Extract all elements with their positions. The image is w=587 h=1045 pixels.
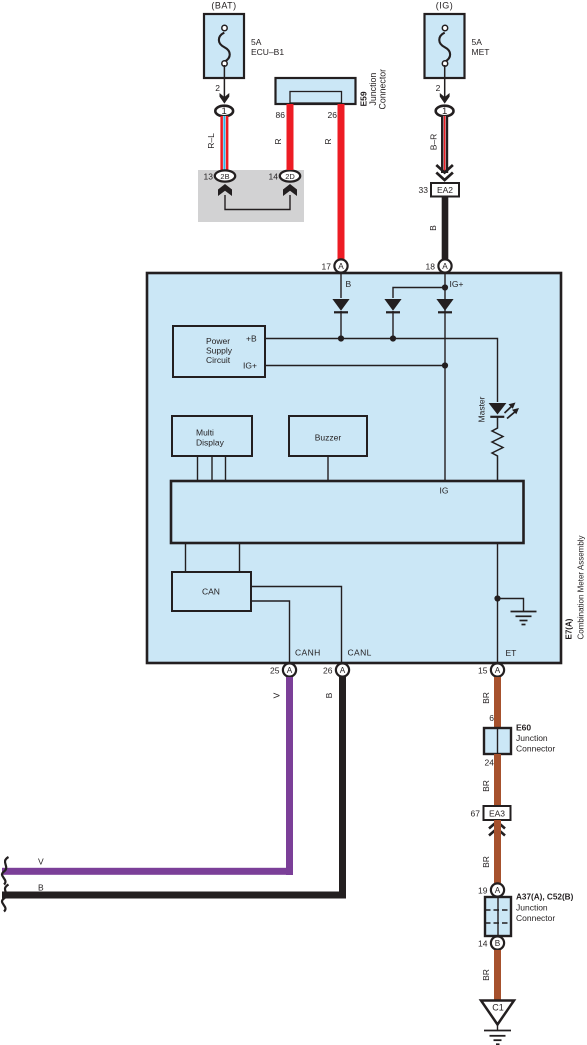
svg-text:6: 6 bbox=[489, 713, 494, 723]
svg-text:25: 25 bbox=[270, 666, 280, 676]
svg-text:Circuit: Circuit bbox=[206, 355, 231, 365]
svg-text:17: 17 bbox=[322, 262, 332, 272]
svg-text:EA3: EA3 bbox=[489, 809, 505, 819]
node dot ET/ground bbox=[494, 595, 500, 601]
wire B (CANL, black) bbox=[2, 677, 346, 899]
pin 25 connector A bbox=[283, 663, 296, 676]
svg-text:26: 26 bbox=[323, 666, 333, 676]
label Junction Connector (A37) bbox=[516, 903, 555, 924]
svg-text:A: A bbox=[340, 666, 346, 675]
svg-text:BR: BR bbox=[481, 780, 491, 792]
svg-text:B: B bbox=[324, 692, 334, 698]
break symbol (V wire) bbox=[2, 857, 8, 885]
wire bus to ET pin bbox=[497, 543, 499, 663]
svg-text:67: 67 bbox=[471, 809, 481, 819]
svg-text:5A: 5A bbox=[251, 37, 262, 47]
diode D3 bbox=[436, 299, 453, 312]
svg-text:ECU–B1: ECU–B1 bbox=[251, 47, 284, 57]
svg-text:Junction: Junction bbox=[516, 733, 548, 743]
node dot D2/+B bbox=[390, 335, 396, 341]
wire fuse (BAT) to connector 1 bbox=[223, 65, 225, 98]
svg-text:Multi: Multi bbox=[196, 428, 214, 438]
svg-text:2B: 2B bbox=[220, 172, 229, 181]
connector 2D bbox=[280, 170, 300, 181]
svg-text:B: B bbox=[428, 225, 438, 231]
svg-text:BR: BR bbox=[481, 856, 491, 868]
svg-text:86: 86 bbox=[276, 110, 286, 120]
svg-text:Display: Display bbox=[196, 438, 225, 448]
svg-text:1: 1 bbox=[442, 106, 447, 117]
svg-text:BR: BR bbox=[481, 692, 491, 704]
svg-text:14: 14 bbox=[478, 939, 488, 949]
svg-text:Master: Master bbox=[477, 396, 487, 422]
svg-text:(IG): (IG) bbox=[436, 1, 454, 11]
pin 17 connector A bbox=[334, 259, 347, 272]
wire diode2 top branch bbox=[393, 288, 445, 299]
ground point C1 bbox=[481, 1001, 514, 1025]
svg-text:CAN: CAN bbox=[202, 587, 220, 597]
node dot D1/+B bbox=[338, 335, 344, 341]
svg-text:R: R bbox=[273, 138, 283, 144]
svg-text:EA2: EA2 bbox=[437, 185, 453, 195]
svg-text:1: 1 bbox=[222, 106, 227, 117]
svg-text:R–L: R–L bbox=[206, 133, 216, 149]
junction connector E60 bbox=[484, 728, 511, 754]
wire IG+ bus bbox=[266, 365, 446, 367]
svg-text:B–R: B–R bbox=[429, 134, 439, 151]
wire buzzer to bus bbox=[327, 456, 329, 481]
svg-text:Junction: Junction bbox=[516, 903, 548, 913]
svg-text:26: 26 bbox=[328, 110, 338, 120]
svg-text:Junction: Junction bbox=[368, 73, 378, 106]
junction connector A37(A), C52(B) bbox=[485, 897, 511, 936]
svg-text:33: 33 bbox=[419, 185, 429, 195]
wire diode1 to +B bus bbox=[340, 311, 342, 339]
wire BR (pin 15 to E60) bbox=[494, 677, 501, 728]
gray junction block bbox=[198, 170, 304, 222]
svg-text:B: B bbox=[346, 279, 352, 289]
connector arrow (IG) bbox=[440, 93, 450, 104]
svg-text:MET: MET bbox=[472, 47, 490, 57]
svg-text:E7(A): E7(A) bbox=[565, 618, 574, 639]
internal ground bbox=[511, 612, 537, 625]
wire diode2 to +B bus bbox=[392, 311, 394, 339]
LED Master bbox=[489, 403, 519, 419]
wire B-R (black/red) bbox=[441, 116, 448, 173]
svg-text:IG+: IG+ bbox=[450, 279, 464, 289]
wire B (EA2 to pin 18) bbox=[442, 197, 449, 260]
svg-text:18: 18 bbox=[426, 262, 436, 272]
wire pin18 vertical bbox=[444, 273, 446, 481]
svg-text:Connector: Connector bbox=[516, 913, 555, 923]
svg-text:A: A bbox=[338, 262, 344, 271]
internal bus block bbox=[171, 481, 524, 543]
connector 1 (BAT) bbox=[215, 106, 233, 118]
label Junction Connector (E59) bbox=[368, 69, 388, 110]
svg-text:IG+: IG+ bbox=[243, 361, 257, 371]
wire to internal ground bbox=[498, 599, 524, 612]
svg-text:A: A bbox=[442, 262, 448, 271]
wires bus to CAN bbox=[186, 543, 240, 572]
wire CAN to CANH pin bbox=[251, 601, 290, 663]
double chevron arrow down (EA2) bbox=[436, 165, 453, 180]
connector arrow (BAT) bbox=[220, 93, 230, 104]
connector 1 (IG) bbox=[436, 106, 454, 118]
wire fuse (IG) to connector 1 bbox=[444, 65, 446, 98]
svg-text:Supply: Supply bbox=[206, 346, 233, 356]
svg-text:IG: IG bbox=[440, 486, 449, 496]
wire BR (to ground C1) bbox=[494, 950, 501, 1001]
svg-text:B: B bbox=[495, 939, 501, 948]
svg-text:A37(A), C52(B): A37(A), C52(B) bbox=[516, 893, 574, 902]
break symbol (B wire) bbox=[2, 885, 8, 912]
label Junction Connector (E60) bbox=[516, 733, 555, 754]
svg-text:B: B bbox=[38, 883, 44, 893]
wire R-L (red/blue) bbox=[220, 116, 228, 171]
pin 18 connector A bbox=[438, 259, 451, 272]
pin 26 connector A bbox=[336, 663, 349, 676]
svg-text:V: V bbox=[272, 692, 282, 698]
node dot IG+/pin18 bbox=[442, 362, 448, 368]
svg-text:5A: 5A bbox=[472, 37, 483, 47]
multi display block bbox=[172, 416, 252, 456]
svg-text:A: A bbox=[495, 666, 501, 675]
svg-text:CANL: CANL bbox=[348, 648, 372, 658]
svg-text:+B: +B bbox=[246, 334, 257, 344]
wire V (CANH, purple) bbox=[2, 677, 293, 875]
svg-text:ET: ET bbox=[506, 648, 517, 658]
svg-text:(BAT): (BAT) bbox=[211, 1, 236, 11]
fuse ECU-B1 (BAT) bbox=[204, 1, 284, 79]
svg-text:R: R bbox=[323, 138, 333, 144]
arrow up into 2B bbox=[218, 184, 232, 196]
svg-text:A: A bbox=[495, 886, 501, 895]
pin 14 connector B bbox=[491, 936, 504, 949]
svg-text:19: 19 bbox=[478, 886, 488, 896]
svg-text:2: 2 bbox=[436, 83, 441, 93]
wire pin17 to diode1 bbox=[340, 273, 342, 298]
svg-text:BR: BR bbox=[481, 969, 491, 981]
main box E7(A) Combination Meter Assembly bbox=[147, 273, 561, 663]
connector EA2 bbox=[431, 183, 459, 197]
pin 15 connector A bbox=[491, 663, 504, 676]
double chevron arrow up (EA3) bbox=[489, 822, 505, 836]
wire R (pin 86) bbox=[287, 104, 294, 170]
resistor (LED series) bbox=[492, 417, 503, 481]
junction connector E59 bbox=[276, 78, 356, 104]
wire loop 2B to 2D bbox=[225, 195, 290, 210]
connector EA3 bbox=[484, 806, 511, 820]
svg-text:Connector: Connector bbox=[516, 744, 555, 754]
connector 2B bbox=[215, 170, 235, 181]
svg-text:Connector: Connector bbox=[378, 69, 388, 110]
svg-text:E59: E59 bbox=[359, 91, 369, 106]
svg-text:CANH: CANH bbox=[295, 648, 321, 658]
power supply circuit block bbox=[173, 326, 265, 377]
svg-text:V: V bbox=[38, 857, 44, 867]
svg-text:E60: E60 bbox=[516, 723, 531, 733]
ground symbol C1 bbox=[484, 1024, 511, 1044]
svg-text:Buzzer: Buzzer bbox=[315, 433, 342, 443]
svg-text:Combination Meter Assembly: Combination Meter Assembly bbox=[577, 535, 586, 639]
diode D2 bbox=[384, 299, 401, 312]
svg-text:A: A bbox=[287, 666, 293, 675]
svg-text:2: 2 bbox=[215, 83, 220, 93]
arrow up into 2D bbox=[283, 184, 297, 196]
diode D1 bbox=[332, 299, 349, 312]
svg-text:Power: Power bbox=[206, 336, 230, 346]
svg-text:2D: 2D bbox=[285, 172, 295, 181]
wire +B bus bbox=[266, 339, 498, 403]
svg-text:14: 14 bbox=[269, 172, 279, 182]
wires multi display to bus bbox=[198, 456, 226, 481]
svg-text:24: 24 bbox=[485, 758, 495, 768]
CAN block bbox=[172, 572, 251, 611]
pin 19 connector A bbox=[491, 883, 504, 896]
svg-text:15: 15 bbox=[478, 666, 488, 676]
svg-text:13: 13 bbox=[204, 172, 214, 182]
buzzer block bbox=[289, 416, 367, 456]
wire R (pin 26 to pin 17) bbox=[338, 104, 345, 260]
wire BR (EA3 to A37) bbox=[494, 820, 501, 883]
svg-text:C1: C1 bbox=[492, 1003, 504, 1013]
fuse MET (IG) bbox=[425, 1, 490, 79]
wire CAN to CANL pin bbox=[251, 587, 342, 664]
wire BR (E60 to EA3) bbox=[494, 754, 501, 806]
node dot pin18 branch bbox=[442, 284, 448, 290]
